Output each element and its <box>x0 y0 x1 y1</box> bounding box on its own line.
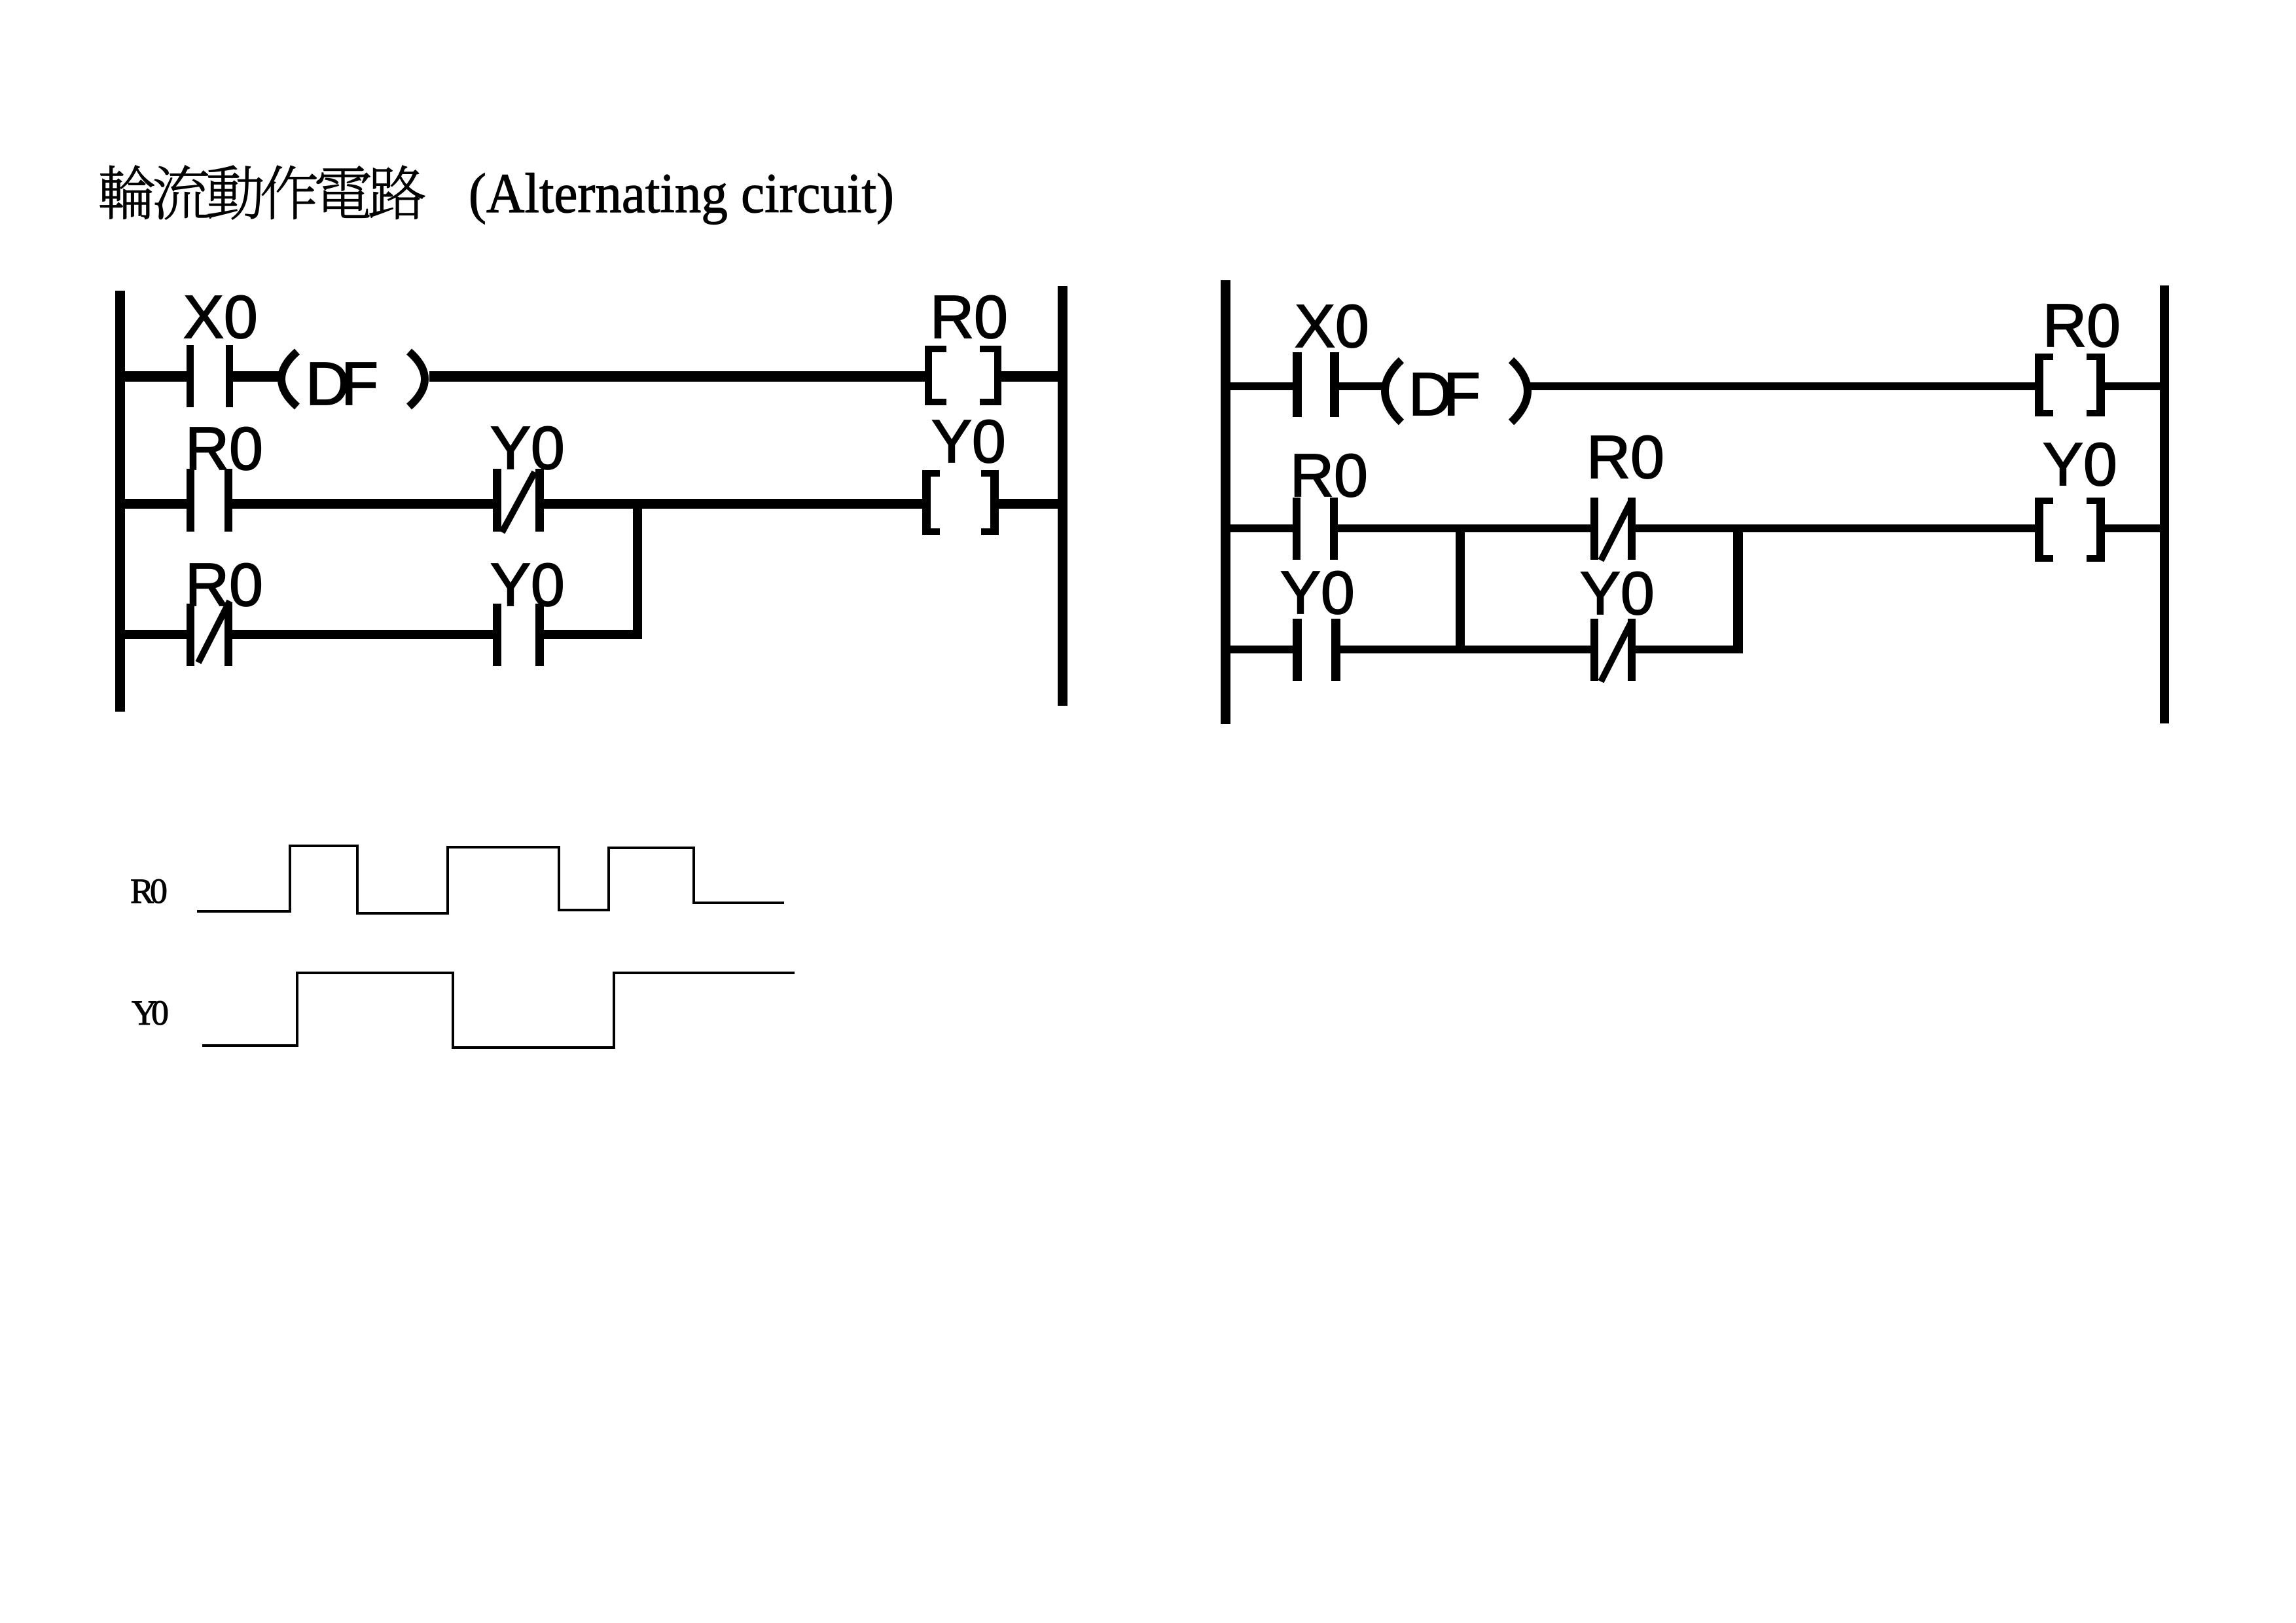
svg-text:Y0: Y0 <box>1280 558 1355 627</box>
contact X0 normally-open (right ladder rung 1) <box>1293 352 1339 417</box>
label R0 waveform <box>130 871 168 911</box>
contact R0 normally-closed (right ladder rung 2) <box>1590 498 1636 560</box>
svg-text:X0: X0 <box>1295 292 1369 360</box>
waveform Y0 <box>202 973 795 1048</box>
title text (Alternating circuit) <box>469 162 894 225</box>
label R0 contact (left ladder rung 2) <box>185 414 263 483</box>
svg-text:(Alternating circuit): (Alternating circuit) <box>469 162 894 225</box>
svg-text:Y0: Y0 <box>490 551 565 619</box>
label Y0 contact (left ladder rung 3) <box>490 551 565 619</box>
svg-text:Y0: Y0 <box>132 993 169 1032</box>
svg-text:Y0: Y0 <box>1580 559 1655 627</box>
junction wire rung3-to-rung2 (left ladder) <box>633 499 642 639</box>
left power rail (left ladder) <box>115 291 125 712</box>
svg-text:X0: X0 <box>183 283 258 351</box>
label Y0 coil (left ladder rung 2) <box>931 407 1006 475</box>
contact R0 normally-open (right ladder rung 2) <box>1293 498 1338 560</box>
label Y0 contact (right ladder rung 3) <box>1280 558 1355 627</box>
wire rung 3 (left ladder) <box>125 630 637 639</box>
title CJK 輪流動作電路 <box>100 166 425 219</box>
contact X0 normally-open (left ladder rung 1) <box>187 345 233 407</box>
contact Y0 normally-open (right ladder rung 3) <box>1293 619 1340 681</box>
contact Y0 normally-open (left ladder rung 3) <box>493 604 544 666</box>
svg-text:R0: R0 <box>2043 291 2121 359</box>
contact R0 normally-closed (left ladder rung 3) <box>187 601 232 666</box>
svg-text:R0: R0 <box>1290 441 1368 509</box>
label X0 contact (right ladder rung 1) <box>1295 292 1369 360</box>
coil R0 (left ladder rung 1) <box>925 346 1001 405</box>
svg-text:DF: DF <box>1408 360 1480 428</box>
DF pulse instruction (right ladder rung 1) <box>1385 360 1528 428</box>
label R0 contact (left ladder rung 3) <box>185 551 263 619</box>
label R0 coil (right ladder rung 1) <box>2043 291 2121 359</box>
svg-text:Y0: Y0 <box>2043 430 2117 498</box>
svg-text:R0: R0 <box>130 871 168 911</box>
label X0 contact (left ladder rung 1) <box>183 283 258 351</box>
contact R0 normally-open (left ladder rung 2) <box>187 469 232 532</box>
DF pulse instruction (left ladder rung 1) <box>281 350 425 418</box>
svg-text:R0: R0 <box>930 283 1008 351</box>
right power rail (left ladder) <box>1058 286 1067 706</box>
junction wire B rung2-to-rung3 (right ladder) <box>1733 524 1743 653</box>
left power rail (right ladder) <box>1221 280 1230 724</box>
wire rung 3 (right ladder) <box>1230 646 1743 653</box>
svg-text:DF: DF <box>306 350 378 418</box>
label Y0 middle contact (right ladder rung 3) <box>1580 559 1655 627</box>
svg-text:Y0: Y0 <box>490 414 565 482</box>
label Y0 coil (right ladder rung 2) <box>2043 430 2117 498</box>
wire rung 2 (right ladder) <box>1230 524 2160 532</box>
coil R0 (right ladder rung 1) <box>2035 354 2105 416</box>
svg-text:R0: R0 <box>1587 423 1664 491</box>
label Y0 contact (left ladder rung 2) <box>490 414 565 482</box>
contact Y0 normally-closed (right ladder rung 3) <box>1590 619 1636 682</box>
label Y0 waveform <box>132 993 169 1032</box>
waveform R0 <box>197 846 784 913</box>
wire rung 2 (left ladder) <box>125 499 1058 509</box>
right power rail (right ladder) <box>2160 285 2169 723</box>
wire rung 1 (left ladder) <box>125 371 1058 382</box>
label R0 contact (right ladder rung 2) <box>1290 441 1368 509</box>
junction wire A rung2-to-rung3 (right ladder) <box>1456 524 1465 653</box>
wire rung 1 (right ladder) <box>1230 382 2160 390</box>
label R0 coil (left ladder rung 1) <box>930 283 1008 351</box>
svg-text:Y0: Y0 <box>931 407 1006 475</box>
label R0 middle contact (right ladder rung 2) <box>1587 423 1664 491</box>
svg-text:R0: R0 <box>185 414 263 483</box>
coil Y0 (left ladder rung 2) <box>922 470 999 535</box>
contact Y0 normally-closed (left ladder rung 2) <box>493 469 544 532</box>
coil Y0 (right ladder rung 2) <box>2035 498 2105 562</box>
